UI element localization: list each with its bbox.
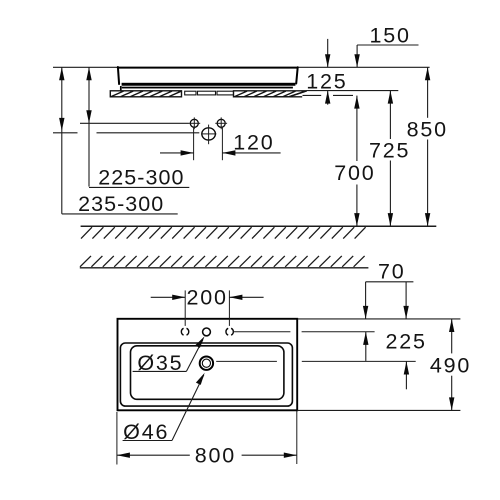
dimension 200 bbox=[151, 286, 264, 326]
floor hatching strip 2 bbox=[80, 256, 365, 267]
plan view bowl outline inner bbox=[131, 346, 284, 400]
svg-text:150: 150 bbox=[369, 23, 410, 47]
dimension 225-300 vertical line bbox=[86, 67, 91, 186]
faucet hole right (plan) bbox=[226, 328, 233, 335]
label 235-300 bbox=[62, 192, 178, 216]
back edge extension line bbox=[297, 318, 460, 320]
dimension 120 bbox=[160, 127, 281, 160]
svg-text:225: 225 bbox=[386, 329, 427, 353]
faucet holes extension line bbox=[233, 331, 374, 333]
svg-text:725: 725 bbox=[369, 138, 410, 162]
basin body side view bbox=[118, 67, 298, 91]
mounting bracket hatched strip right segment bbox=[234, 91, 307, 97]
svg-text:200: 200 bbox=[186, 286, 227, 310]
svg-text:225-300: 225-300 bbox=[98, 166, 184, 190]
svg-text:800: 800 bbox=[195, 444, 236, 468]
dimension 700 bbox=[334, 96, 375, 227]
floor strip 2 bottom line bbox=[80, 267, 369, 269]
bracket underside reference line bbox=[303, 94, 354, 96]
drain ring (plan) bbox=[200, 357, 213, 370]
dimension 725 bbox=[369, 91, 410, 227]
dimension 800 bbox=[117, 411, 297, 468]
faucet hole left (plan) bbox=[181, 328, 188, 335]
dimension 850 bbox=[407, 67, 448, 226]
drain height tick line bbox=[53, 132, 199, 134]
mounting bracket hatched strip left segment bbox=[110, 91, 181, 97]
dimension 125 bbox=[306, 39, 347, 105]
plan view bowl outline outer bbox=[120, 343, 292, 406]
faucet hole height line bbox=[80, 122, 189, 124]
faucet hole center (plan) bbox=[203, 328, 211, 336]
svg-text:70: 70 bbox=[378, 260, 406, 284]
faucet hole circle right (side view) bbox=[215, 117, 227, 129]
dimension 150 bbox=[354, 23, 418, 67]
wall reference line (rim level) bbox=[53, 66, 430, 68]
dimension 70 bbox=[363, 260, 414, 361]
basin underside reference line bbox=[307, 90, 399, 92]
svg-text:125: 125 bbox=[306, 69, 347, 93]
floor hatching strip 1 bbox=[81, 227, 366, 238]
label diameter 46 bbox=[123, 373, 205, 445]
front edge extension line bbox=[297, 409, 460, 411]
drain extension line bbox=[216, 360, 416, 362]
dimension 490 bbox=[430, 319, 471, 410]
drain trap boxes under basin bbox=[185, 91, 234, 95]
faucet hole circle left (side view) bbox=[188, 117, 200, 129]
dimension 225 bbox=[386, 282, 427, 390]
label diameter 35 bbox=[133, 336, 205, 375]
plan view outer rect bbox=[118, 319, 298, 411]
floor line bbox=[81, 225, 437, 227]
drain hole circle (side view) bbox=[201, 125, 216, 145]
dimension 235-300 vertical line bbox=[59, 67, 64, 214]
svg-text:235-300: 235-300 bbox=[78, 192, 164, 216]
svg-text:700: 700 bbox=[334, 161, 375, 185]
svg-text:490: 490 bbox=[430, 354, 471, 378]
svg-text:120: 120 bbox=[233, 131, 274, 155]
svg-text:850: 850 bbox=[407, 118, 448, 142]
label 225-300 bbox=[89, 166, 189, 190]
